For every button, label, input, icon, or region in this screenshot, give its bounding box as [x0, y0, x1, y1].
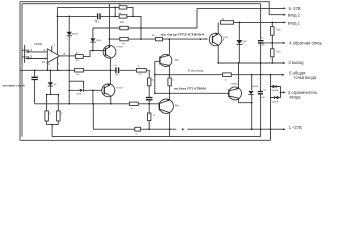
- svg-text:5к: 5к: [136, 134, 138, 136]
- svg-text:20к: 20к: [151, 80, 154, 82]
- svg-text:1к: 1к: [131, 108, 133, 110]
- svg-text:на базу ПТ1 КТ808А: на базу ПТ1 КТ808А: [174, 87, 207, 91]
- svg-text:вход 2: вход 2: [22, 54, 32, 58]
- svg-text:точка входа: точка входа: [294, 75, 317, 80]
- svg-text:КД105А: КД105А: [272, 100, 279, 103]
- svg-text:вход 1: вход 1: [288, 20, 301, 25]
- svg-text:входа: входа: [290, 94, 302, 99]
- svg-text:6 -27В: 6 -27В: [289, 6, 301, 11]
- svg-text:1к: 1к: [153, 115, 155, 117]
- svg-text:4 обратная связь: 4 обратная связь: [289, 40, 322, 45]
- svg-text:на базу ПТ2 КТ805А: на базу ПТ2 КТ805А: [161, 32, 206, 36]
- svg-text:КД105А: КД105А: [252, 85, 259, 88]
- svg-text:Д223: Д223: [77, 93, 81, 95]
- svg-text:10: 10: [42, 60, 46, 64]
- svg-text:КТ315Г: КТ315Г: [116, 47, 124, 49]
- svg-text:1к: 1к: [172, 80, 174, 82]
- svg-text:1 +27В: 1 +27В: [289, 125, 302, 130]
- svg-text:5 выход: 5 выход: [188, 68, 204, 72]
- svg-text:вход 1: вход 1: [22, 48, 32, 52]
- svg-text:Д814А: Д814А: [71, 33, 78, 36]
- svg-text:1к: 1к: [225, 79, 227, 81]
- svg-text:зел жёлт голуб: зел жёлт голуб: [3, 83, 25, 87]
- svg-text:Рог: Рог: [175, 58, 179, 62]
- svg-text:1,2к: 1,2к: [138, 74, 142, 76]
- svg-text:вход 2: вход 2: [288, 13, 301, 18]
- svg-text:3 выход: 3 выход: [288, 60, 304, 65]
- svg-text:5,0: 5,0: [115, 65, 118, 67]
- svg-text:50: 50: [261, 38, 263, 40]
- svg-text:КТ315Г: КТ315Г: [116, 88, 124, 90]
- svg-text:20,0: 20,0: [263, 89, 267, 91]
- svg-text:КД105А: КД105А: [272, 89, 279, 92]
- svg-text:140УД1: 140УД1: [34, 43, 43, 46]
- svg-text:КТ808А: КТ808А: [231, 83, 238, 86]
- svg-text:Рог: Рог: [175, 104, 179, 108]
- svg-text:1к: 1к: [49, 113, 51, 115]
- svg-text:10к: 10к: [122, 43, 125, 45]
- svg-text:1к: 1к: [138, 66, 140, 68]
- svg-text:Д814: Д814: [96, 40, 102, 42]
- svg-text:1к: 1к: [61, 113, 63, 115]
